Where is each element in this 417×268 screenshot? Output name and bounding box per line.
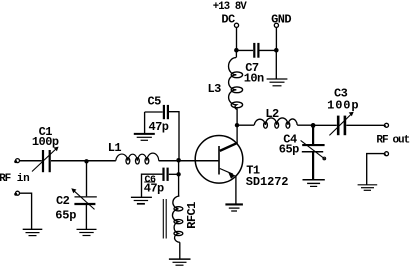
svg-text:GND: GND xyxy=(271,13,291,27)
svg-text:DC: DC xyxy=(221,13,235,27)
svg-text:65p: 65p xyxy=(279,143,299,157)
svg-text:L2: L2 xyxy=(265,107,279,121)
svg-text:RF: RF xyxy=(0,173,11,185)
svg-text:65p: 65p xyxy=(55,208,76,222)
svg-text:L1: L1 xyxy=(108,141,122,155)
svg-text:+13 8V: +13 8V xyxy=(213,1,248,13)
svg-text:C2: C2 xyxy=(56,194,70,208)
svg-text:10n: 10n xyxy=(244,72,264,86)
svg-text:SD1272: SD1272 xyxy=(246,175,289,189)
svg-text:47p: 47p xyxy=(149,120,169,134)
svg-text:RF: RF xyxy=(376,134,388,146)
svg-text:out: out xyxy=(393,134,410,146)
svg-text:C5: C5 xyxy=(148,94,162,108)
svg-text:100p: 100p xyxy=(32,135,59,149)
svg-text:100p: 100p xyxy=(327,98,359,112)
svg-text:RFC1: RFC1 xyxy=(185,202,199,229)
svg-text:in: in xyxy=(17,173,30,185)
svg-text:L3: L3 xyxy=(208,82,222,96)
svg-text:C6: C6 xyxy=(145,175,156,186)
